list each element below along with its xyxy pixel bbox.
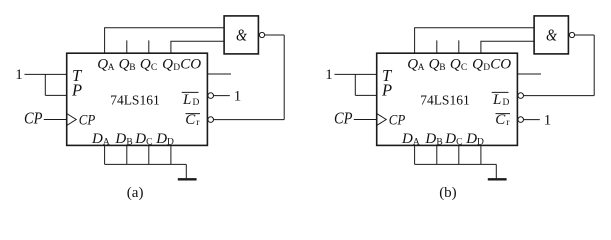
svg-text:Q: Q [429,56,440,72]
svg-text:D: D [167,137,174,147]
svg-text:&: & [546,26,558,45]
svg-text:1: 1 [15,67,23,83]
svg-text:A: A [418,63,425,73]
svg-text:A: A [108,63,115,73]
svg-text:D: D [465,131,477,147]
svg-text:C: C [146,137,152,147]
svg-text:C: C [151,63,157,73]
svg-text:D: D [155,131,167,147]
svg-text:D: D [477,137,484,147]
svg-text:D: D [134,131,146,147]
svg-text:r: r [196,118,200,128]
svg-text:(a): (a) [127,185,144,200]
svg-text:P: P [71,80,82,99]
svg-text:D: D [401,131,413,147]
svg-text:C: C [185,112,196,128]
svg-text:CO: CO [180,56,201,72]
svg-text:Q: Q [472,56,483,72]
svg-text:Q: Q [140,56,151,72]
svg-text:D: D [91,131,103,147]
svg-text:CP: CP [389,113,406,129]
svg-text:D: D [503,98,510,108]
svg-text:CP: CP [334,108,353,127]
svg-text:C: C [461,63,467,73]
svg-text:L: L [492,92,501,108]
svg-text:(b): (b) [439,185,457,200]
svg-text:1: 1 [325,67,333,83]
svg-text:L: L [182,92,191,108]
svg-text:C: C [456,137,462,147]
svg-text:74LS161: 74LS161 [420,93,470,108]
svg-text:A: A [413,137,420,147]
svg-text:P: P [381,80,392,99]
svg-text:r: r [506,118,510,128]
svg-text:D: D [424,131,436,147]
svg-text:&: & [236,26,248,45]
svg-text:B: B [129,63,135,73]
svg-text:D: D [193,98,200,108]
svg-text:CP: CP [79,113,96,129]
svg-text:D: D [114,131,126,147]
svg-text:Q: Q [450,56,461,72]
svg-text:B: B [436,137,442,147]
svg-text:1: 1 [544,112,552,128]
svg-text:Q: Q [162,56,173,72]
svg-text:Q: Q [119,56,130,72]
svg-text:CO: CO [490,56,511,72]
svg-text:A: A [103,137,110,147]
svg-text:C: C [495,112,506,128]
svg-text:74LS161: 74LS161 [110,93,160,108]
svg-text:CP: CP [24,108,43,127]
svg-text:1: 1 [234,88,242,104]
svg-text:B: B [439,63,445,73]
svg-text:B: B [126,137,132,147]
svg-text:D: D [444,131,456,147]
